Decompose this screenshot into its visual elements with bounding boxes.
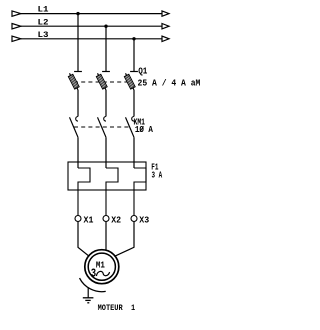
terminal X1: [75, 216, 81, 222]
F1 heater element pole 1: [78, 168, 90, 216]
wire Q1 to KM1 pole 3: [133, 90, 135, 117]
svg-text:MOTEUR 1: MOTEUR 1: [98, 304, 136, 313]
svg-text:L3: L3: [38, 31, 49, 40]
svg-text:L2: L2: [38, 18, 49, 27]
svg-text:3 A: 3 A: [152, 171, 163, 181]
fuse-switch Q1 pole 3: [124, 72, 138, 91]
terminal X2: [103, 216, 109, 222]
thermal relay F1 box: [68, 162, 146, 190]
wire L3 to Q1: [133, 39, 135, 72]
wire Q1 to KM1 pole 2: [105, 90, 107, 117]
wire KM1 to F1 pole 2: [105, 137, 107, 168]
wire X3 to motor: [114, 222, 134, 257]
junction dot L1: [76, 12, 79, 15]
svg-text:M1: M1: [96, 260, 105, 271]
wire KM1 to F1 pole 1: [77, 137, 79, 168]
Q1 linkage dashed: [74, 81, 131, 83]
wire X2 to motor: [105, 222, 107, 251]
ground symbol: [83, 298, 94, 303]
wire L1 to Q1: [77, 14, 79, 72]
earth wire stem: [87, 288, 89, 298]
wire X1 to motor: [78, 222, 89, 257]
motor M1 inner circle: [88, 253, 115, 280]
F1 heater element pole 3: [134, 168, 146, 216]
junction dot L2: [104, 25, 107, 28]
F1 heater element pole 2: [106, 168, 118, 216]
net L1 phase line: [12, 11, 169, 16]
svg-text:1Ø A: 1Ø A: [135, 125, 153, 135]
junction dot L3: [132, 37, 135, 40]
motor M1 outer circle: [85, 250, 119, 284]
contactor KM1 pole 2: [98, 117, 107, 138]
svg-text:X1: X1: [84, 215, 94, 225]
svg-text:3: 3: [91, 267, 96, 280]
fuse-switch Q1 pole 1: [68, 72, 82, 91]
svg-text:25 A / 4 A aM: 25 A / 4 A aM: [138, 79, 201, 89]
earth bonding arc: [80, 278, 106, 292]
svg-text:X2: X2: [111, 215, 121, 225]
sine symbol: [96, 271, 109, 276]
contactor KM1 pole 1: [70, 117, 79, 138]
fuse-switch Q1 pole 2: [96, 72, 110, 91]
contactor KM1 pole 3: [126, 117, 135, 138]
svg-text:L1: L1: [38, 6, 49, 15]
svg-text:X3: X3: [139, 215, 149, 225]
wire Q1 to KM1 pole 1: [77, 90, 79, 117]
svg-text:Q1: Q1: [138, 67, 148, 77]
net L3 phase line: [12, 36, 169, 41]
wire KM1 to F1 pole 3: [133, 137, 135, 168]
KM1 linkage dashed: [74, 126, 131, 128]
net L2 phase line: [12, 24, 169, 29]
terminal X3: [131, 216, 137, 222]
wire L2 to Q1: [105, 26, 107, 71]
